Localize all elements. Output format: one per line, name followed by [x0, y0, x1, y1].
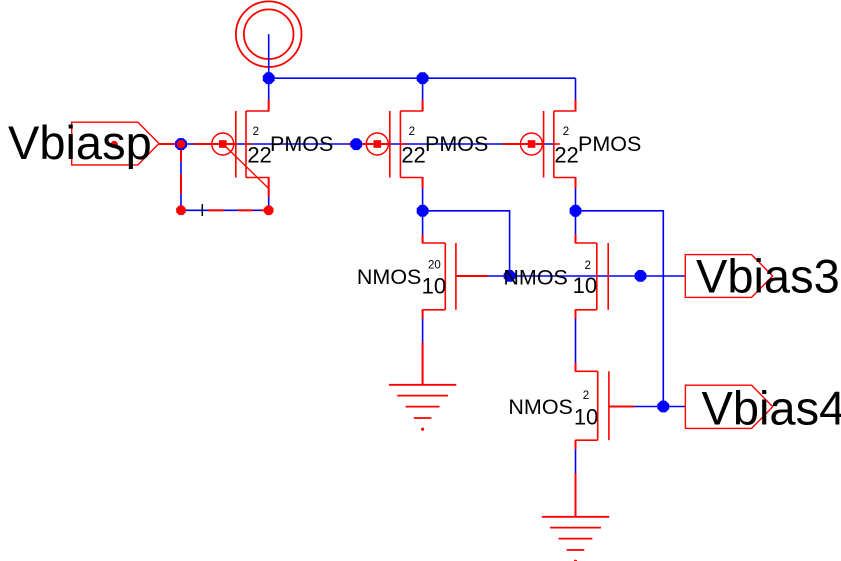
node M4 gate / Vbias3 tee: [504, 270, 516, 282]
node M2 drain: [417, 205, 429, 217]
transistor NMOS M4: [423, 234, 488, 318]
svg-text:2: 2: [585, 260, 591, 272]
svg-text:10: 10: [573, 273, 597, 298]
svg-text:10: 10: [574, 405, 598, 430]
node gate bus junction: [350, 138, 362, 150]
transistor PMOS M2: [348, 99, 422, 188]
wire NMOS M4 source to ground: [422, 310, 424, 385]
wire NMOS M5 source to NMOS M6 drain: [575, 310, 577, 372]
svg-text:20: 20: [428, 259, 441, 271]
ground GND2: [542, 517, 609, 561]
pin stub ground M4: [422, 342, 424, 385]
wire PMOS M1 drain down: [268, 178, 270, 211]
svg-text:22: 22: [554, 142, 578, 167]
wire Vbiasp gate bus: [181, 143, 554, 145]
svg-text:2: 2: [409, 126, 415, 138]
wire PMOS M1 source to rail: [268, 78, 270, 111]
wire node C over and down to Vbias4 row: [576, 211, 664, 407]
svg-text:NMOS: NMOS: [503, 266, 568, 290]
wire PMOS M2 drain / NMOS M4 drain column: [422, 178, 424, 244]
node bulk loop left end: [176, 206, 186, 216]
transistor NMOS M5: [576, 234, 609, 318]
node Vbiasp pin (port to bus): [175, 138, 187, 150]
port Vbias4: [685, 385, 772, 428]
svg-text:Vbias3: Vbias3: [696, 249, 840, 302]
svg-text:NMOS: NMOS: [508, 395, 573, 419]
svg-text:PMOS: PMOS: [425, 132, 488, 156]
svg-text:2: 2: [583, 390, 589, 402]
wire top VDD rail: [268, 77, 576, 79]
pin stub ground M6: [575, 473, 577, 517]
wire node B over to NMOS gate row: [423, 211, 510, 276]
wire PMOS M3 source to rail: [575, 78, 577, 111]
svg-text:PMOS: PMOS: [270, 132, 333, 156]
transistor NMOS M6: [576, 363, 634, 450]
svg-text:22: 22: [401, 142, 425, 167]
wire Vbias3 net: [510, 275, 686, 277]
port Vbias3: [685, 255, 772, 298]
node rail / M2 source: [417, 72, 429, 84]
transistor PMOS M1: [194, 99, 269, 197]
node VDD-rail junction: [263, 72, 275, 84]
node Vbias3 junction: [635, 270, 647, 282]
svg-text:2: 2: [563, 126, 569, 138]
node Vbiasp port origin dot: [111, 141, 118, 148]
svg-text:Vbiasp: Vbiasp: [8, 116, 152, 169]
wire PMOS M3 drain / NMOS M5 drain column: [575, 178, 577, 244]
node bulk loop right end / M1 drain: [264, 206, 274, 216]
wire VDD stem: [268, 34, 270, 78]
svg-text:Vbias4: Vbias4: [702, 381, 841, 434]
wire NMOS M4 gate to node: [456, 275, 510, 277]
node Vbias4 junction: [657, 401, 669, 413]
wire M1 bulk loop (selected net, dashed): [181, 144, 269, 210]
power VDD symbol: [236, 1, 302, 67]
svg-text:NMOS: NMOS: [357, 265, 422, 289]
transistor PMOS M3: [503, 99, 576, 188]
node M3 drain: [570, 205, 582, 217]
wire PMOS M2 source to rail: [422, 78, 424, 111]
wire NMOS M6 source to ground: [575, 440, 577, 517]
pin stub Vbiasp port: [159, 143, 181, 145]
svg-text:PMOS: PMOS: [578, 132, 641, 156]
svg-text:10: 10: [422, 274, 446, 299]
net name tick on bulk wire: [201, 204, 203, 216]
port Vbiasp: [72, 122, 159, 165]
wire NMOS M6 gate to Vbias4: [609, 406, 686, 408]
ground GND1: [389, 385, 456, 431]
svg-text:2: 2: [253, 126, 259, 138]
svg-text:22: 22: [247, 142, 271, 167]
